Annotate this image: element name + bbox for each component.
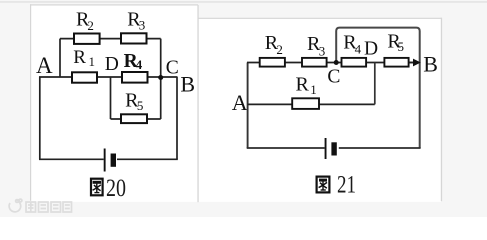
node D: [105, 54, 119, 75]
svg-text:3: 3: [139, 18, 146, 33]
resistor R5: [121, 89, 147, 123]
resistor R2: [74, 8, 100, 44]
wire bottom right of battery: [117, 158, 178, 160]
svg-text:1: 1: [310, 82, 317, 97]
node A: [36, 53, 53, 78]
svg-text:5: 5: [137, 98, 144, 113]
svg-text:D: D: [105, 54, 119, 75]
resistor R4: [342, 31, 367, 66]
wire R5 row horizontal: [111, 118, 161, 120]
node B: [423, 51, 438, 76]
resistor R3: [302, 33, 327, 67]
wire main horizontal A-D-C-B: [39, 76, 177, 78]
svg-text:21: 21: [337, 172, 356, 199]
resistor R1: [292, 74, 319, 109]
resistor R5: [384, 31, 408, 67]
resistor R3: [121, 8, 147, 43]
wire left vertical: [247, 63, 249, 149]
wire R5 to B with arrowhead: [410, 59, 421, 67]
node C (junction dot + label): [158, 58, 179, 80]
svg-text:A: A: [36, 53, 53, 78]
svg-text:2: 2: [87, 18, 94, 33]
label fig21 caption: [317, 172, 356, 199]
wire bottom left of battery: [247, 147, 325, 149]
svg-text:B: B: [180, 72, 195, 97]
svg-text:4: 4: [355, 42, 362, 57]
svg-text:3: 3: [319, 43, 326, 58]
wire branch up to R2 row: [59, 39, 61, 77]
wire right vertical from R3 row down through C to R5 row: [160, 39, 162, 119]
battery BT1: [104, 149, 116, 172]
svg-text:5: 5: [398, 39, 405, 54]
svg-text:4: 4: [136, 57, 143, 72]
wire D branch vertical: [374, 63, 376, 105]
svg-text:C: C: [327, 67, 340, 88]
wire top horizontal R2-R3 row: [60, 38, 161, 40]
svg-text:R: R: [73, 47, 86, 68]
svg-text:R: R: [296, 74, 310, 96]
node B: [180, 72, 195, 97]
label fig20 caption: [91, 175, 126, 202]
resistor R2: [260, 32, 285, 67]
node A: [232, 90, 248, 115]
wire bottom right of battery: [339, 147, 421, 149]
svg-text:B: B: [423, 51, 438, 76]
svg-text:20: 20: [106, 175, 126, 202]
node C (junction dot + label): [327, 60, 340, 88]
node D: [364, 38, 378, 59]
wire bottom left of battery: [39, 158, 104, 160]
wire right vertical B down: [176, 77, 178, 160]
wire top row horizontal: [247, 62, 416, 64]
wire D branch down to R5 row: [110, 77, 112, 119]
wire R1 row horizontal: [248, 103, 375, 105]
resistor R1: [72, 47, 97, 83]
svg-text:A: A: [232, 90, 248, 115]
svg-text:1: 1: [89, 54, 96, 69]
wire bypass loop C to B (rounded): [336, 28, 420, 148]
resistor R4: [122, 51, 148, 82]
battery BT2: [325, 138, 337, 159]
svg-text:C: C: [166, 58, 179, 79]
wire left vertical from A down: [39, 77, 41, 160]
svg-text:2: 2: [276, 42, 283, 57]
svg-text:D: D: [364, 38, 378, 59]
